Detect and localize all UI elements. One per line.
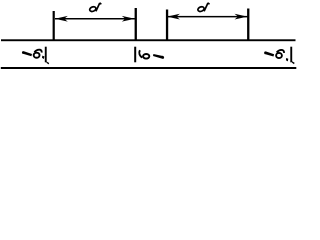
tick 1 — [53, 11, 55, 41]
right label: digit 6 loop — [276, 53, 282, 58]
left label: digit 6 loop — [34, 53, 40, 58]
left label: extension bar — [45, 47, 47, 63]
right label: comma — [286, 58, 288, 61]
right label: digit 6 top stroke — [277, 50, 284, 53]
right label: digit 1 (dash) — [264, 51, 274, 56]
left label: digit 6 top stroke — [34, 50, 41, 53]
tick 4 — [247, 9, 249, 41]
middle label: digit 6 stroke (mirrored) — [139, 50, 142, 57]
arrowhead d1 right — [122, 16, 135, 22]
right label: bar foot — [292, 61, 295, 64]
main baseline — [1, 39, 296, 41]
arrowhead d1 left — [55, 16, 68, 22]
right label: extension bar — [290, 47, 292, 63]
dimension line d1 — [55, 18, 135, 20]
middle label: digit 6 loop (mirrored) — [143, 54, 149, 59]
arrowhead d2 left — [167, 14, 180, 20]
label d2 — [197, 3, 209, 13]
left label: comma — [42, 56, 44, 59]
left label: rotated value digit 1 (dash) — [22, 51, 32, 56]
tick 2 — [135, 8, 137, 41]
arrowhead d2 right — [235, 14, 248, 20]
middle label: digit 1 dash (mirrored) — [153, 54, 164, 59]
dimension line d2 — [167, 16, 248, 18]
label d1 — [89, 3, 101, 13]
tick 3 — [166, 10, 168, 41]
bottom line — [1, 67, 297, 69]
left label: bar foot — [47, 62, 50, 65]
middle label: extension bar — [134, 47, 136, 63]
